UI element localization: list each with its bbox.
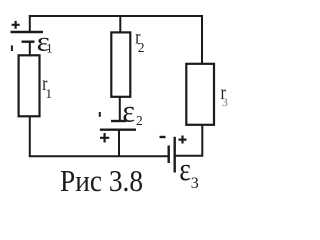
wire right branch top vertical (201, 15, 203, 65)
wire left branch top vertical (29, 15, 31, 32)
resistor r2 (111, 32, 130, 96)
svg-text:ε: ε (179, 151, 191, 188)
wire bottom horizontal (29, 155, 168, 157)
svg-text:3: 3 (191, 175, 199, 192)
svg-text:3: 3 (222, 95, 228, 109)
battery E3 short plate (167, 146, 169, 164)
wire top horizontal (29, 15, 203, 17)
svg-text:2: 2 (138, 40, 145, 55)
battery E1 long plate (11, 31, 44, 33)
label r1 (42, 72, 52, 101)
svg-text:1: 1 (46, 86, 53, 101)
battery E2 short plate (111, 120, 126, 122)
plus sign E3 (179, 136, 187, 144)
svg-text:2: 2 (136, 113, 143, 128)
wire middle branch top vertical (119, 15, 121, 34)
svg-text:Рис 3.8: Рис 3.8 (60, 164, 143, 198)
wire R1 to bottom (29, 116, 31, 157)
label epsilon3 (179, 151, 199, 192)
plus sign E2 (100, 133, 109, 143)
label r3 (221, 81, 228, 109)
battery E3 long plate (173, 137, 175, 173)
resistor r3 (186, 64, 214, 125)
resistor r1 (19, 55, 40, 116)
plus sign E1 (12, 21, 20, 29)
wire R3 down and left to E3 (175, 125, 203, 156)
label r2 (135, 26, 144, 56)
wire E2 to bottom (118, 130, 120, 157)
battery E1 short plate (22, 41, 35, 43)
wire E1 to R1 (29, 42, 31, 57)
minus tick E1 (11, 45, 13, 51)
label epsilon2 (122, 94, 142, 129)
wire R2 to E2 (119, 97, 121, 121)
battery E2 long plate (100, 128, 136, 130)
svg-text:ε: ε (122, 94, 135, 129)
minus tick E2 (99, 112, 101, 117)
minus sign E3 (160, 136, 166, 138)
svg-text:1: 1 (46, 42, 52, 56)
label epsilon1 (37, 27, 53, 57)
